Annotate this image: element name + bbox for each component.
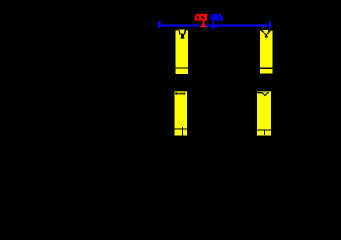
pad P3 bottom tick cross: [174, 127, 187, 136]
dimension left tick: [158, 21, 160, 28]
pad P2 lead notch: [260, 30, 272, 38]
pad P3 lead squiggle: [174, 91, 187, 95]
dimension right tick: [269, 21, 271, 28]
blue position marker (anchor below line): [211, 21, 216, 29]
pad P1 (top-left yellow pad): [176, 30, 189, 74]
pad P3 (bottom-left yellow pad): [174, 91, 187, 135]
label "05" (red, bold blocky digits): [195, 14, 208, 21]
dimension line (blue), left segment: [158, 24, 199, 26]
label "96" (blue, bold blocky digits): [210, 14, 223, 21]
pad P2 separator line: [260, 67, 272, 69]
pad P1 lead notch: [176, 30, 189, 39]
pad P1 separator line: [176, 68, 189, 69]
dimension line (blue), right segment: [206, 24, 271, 26]
pad P4 lead squiggle: [257, 91, 271, 96]
pad P4 bottom tick cross: [257, 129, 271, 135]
pad P2 (top-right yellow pad): [260, 30, 272, 74]
pad P4 (bottom-right yellow pad): [257, 91, 271, 135]
red position marker (arrow on dimension line): [200, 21, 207, 27]
